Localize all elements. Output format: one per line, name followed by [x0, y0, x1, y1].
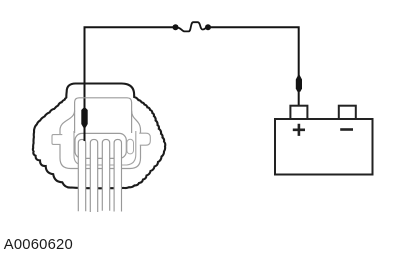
battery negative terminal post [339, 106, 356, 120]
wire: connector pin up and across to fuse [85, 27, 176, 141]
connector right tab [139, 133, 150, 145]
connector wire 1 fill [78, 139, 85, 211]
wire: pin lead inside connector [84, 126, 86, 141]
connector C1 outer shell [33, 84, 165, 189]
connector inner housing (wide gray outline) [60, 111, 141, 169]
connector wire 3 outline [102, 139, 109, 210]
battery plus label [293, 124, 305, 136]
battery minus label [340, 128, 353, 131]
pin cavity 4 [127, 139, 134, 154]
terminal pin (bullet) on battery wire [296, 74, 302, 92]
connector wire 4 fill [114, 139, 121, 211]
terminal pin (bullet) inside connector [81, 107, 87, 128]
connector wire 4 outline [114, 139, 121, 211]
connector inner housing raised top [75, 98, 132, 133]
battery body [275, 119, 373, 175]
connector left tab [52, 135, 62, 145]
connector wire 1 outline [78, 139, 85, 211]
part number label [4, 237, 73, 253]
battery positive terminal post [290, 106, 307, 120]
junction dot: fuse left [173, 24, 179, 30]
wire: fuse across and down to battery positive terminal [208, 27, 299, 107]
fusible link F1 (wavy symbol) [176, 22, 209, 31]
connector wire 3 fill [102, 139, 109, 210]
junction dot: fuse right [205, 24, 211, 30]
connector face (inner U outline) [74, 131, 136, 165]
connector pin block [75, 133, 126, 158]
connector wire 2 fill [90, 139, 97, 212]
connector wire 2 outline [90, 139, 97, 212]
